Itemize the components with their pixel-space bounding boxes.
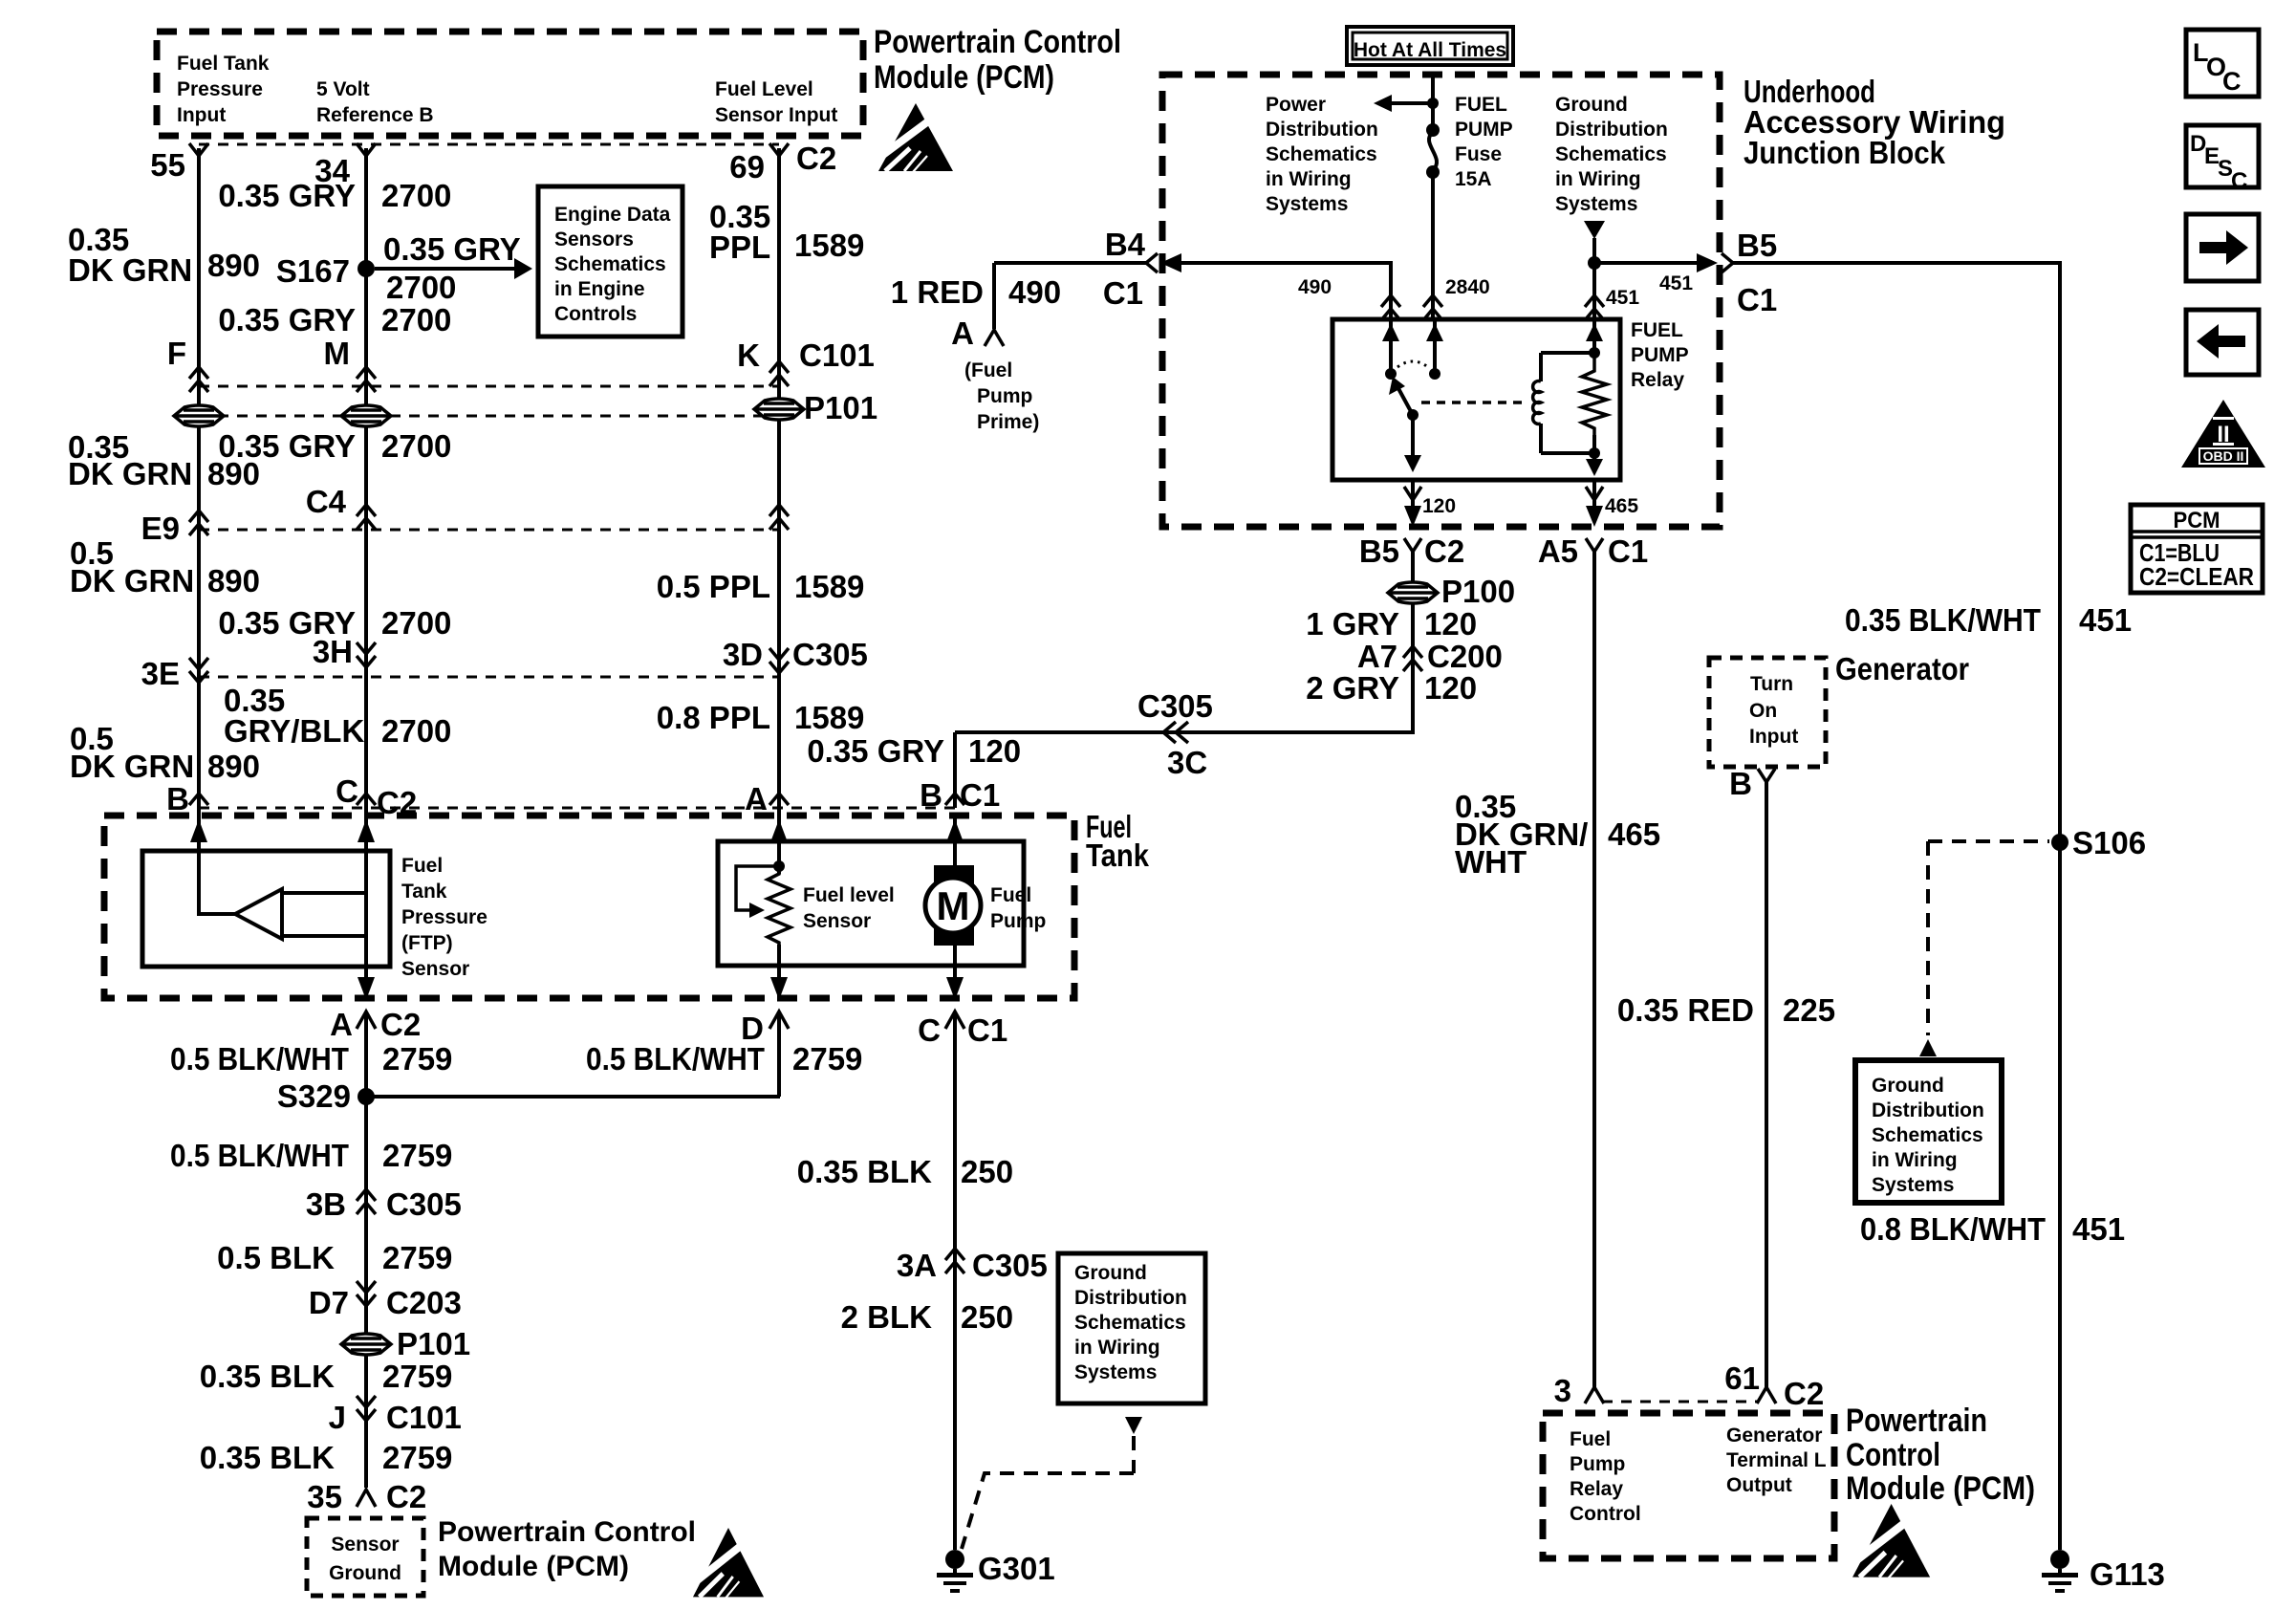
svg-text:in Wiring: in Wiring [1266, 168, 1352, 190]
svg-text:GRY/BLK: GRY/BLK [224, 713, 364, 749]
svg-text:G113: G113 [2090, 1556, 2165, 1592]
svg-text:Control: Control [1846, 1437, 1940, 1473]
svg-text:S106: S106 [2072, 825, 2146, 860]
svg-text:C305: C305 [386, 1186, 462, 1222]
svg-text:B: B [166, 781, 189, 816]
svg-text:0.35 GRY: 0.35 GRY [383, 231, 521, 267]
svg-text:C: C [2231, 168, 2247, 194]
svg-text:2700: 2700 [386, 270, 456, 305]
svg-text:PUMP: PUMP [1455, 119, 1513, 141]
svg-text:E9: E9 [141, 511, 180, 546]
svg-text:2700: 2700 [381, 605, 451, 641]
svg-text:Sensor: Sensor [803, 910, 871, 932]
svg-text:Systems: Systems [1266, 193, 1348, 215]
svg-text:C101: C101 [386, 1400, 462, 1435]
svg-text:Sensor: Sensor [331, 1534, 399, 1556]
svg-text:Fuel Level: Fuel Level [715, 78, 813, 100]
svg-text:Fuel: Fuel [1570, 1428, 1611, 1450]
svg-text:(Fuel: (Fuel [964, 359, 1012, 381]
svg-text:Tank: Tank [401, 881, 447, 903]
svg-text:69: 69 [729, 149, 765, 185]
svg-text:Ground: Ground [329, 1562, 401, 1584]
svg-text:3D: 3D [723, 637, 763, 672]
svg-text:1 RED: 1 RED [891, 274, 984, 310]
svg-text:0.35 GRY: 0.35 GRY [218, 178, 356, 213]
svg-text:Junction Block: Junction Block [1744, 135, 1946, 170]
svg-text:S167: S167 [276, 253, 350, 289]
svg-text:890: 890 [207, 563, 260, 598]
svg-text:3H: 3H [313, 634, 353, 669]
svg-text:3C: 3C [1167, 745, 1207, 780]
svg-text:C: C [336, 773, 358, 809]
svg-text:A: A [951, 315, 974, 351]
svg-text:Input: Input [1749, 726, 1798, 748]
svg-text:P101: P101 [397, 1326, 470, 1361]
svg-text:1589: 1589 [794, 569, 864, 604]
svg-text:Systems: Systems [1074, 1361, 1157, 1383]
svg-text:C305: C305 [1137, 688, 1213, 724]
svg-text:0.35 BLK: 0.35 BLK [200, 1440, 335, 1475]
svg-text:Module (PCM): Module (PCM) [1846, 1470, 2035, 1507]
svg-text:C: C [2222, 67, 2242, 96]
svg-text:Distribution: Distribution [1074, 1287, 1187, 1309]
svg-text:C1: C1 [1608, 533, 1648, 569]
svg-text:Terminal L: Terminal L [1726, 1449, 1827, 1471]
svg-text:Pump: Pump [990, 910, 1046, 932]
svg-text:P100: P100 [1441, 574, 1515, 609]
svg-text:F: F [167, 336, 186, 371]
svg-text:B4: B4 [1105, 227, 1146, 262]
svg-text:A5: A5 [1538, 533, 1578, 569]
svg-text:35: 35 [307, 1479, 342, 1514]
svg-text:490: 490 [1008, 274, 1061, 310]
svg-text:On: On [1749, 700, 1777, 722]
svg-text:Controls: Controls [554, 303, 637, 325]
svg-text:Schematics: Schematics [1266, 143, 1377, 165]
svg-text:Powertrain Control: Powertrain Control [874, 24, 1121, 60]
svg-text:250: 250 [961, 1299, 1013, 1335]
svg-text:Powertrain Control: Powertrain Control [438, 1516, 696, 1548]
svg-text:Pump: Pump [977, 385, 1032, 407]
svg-text:3A: 3A [897, 1248, 937, 1283]
svg-text:3: 3 [1554, 1373, 1571, 1408]
svg-text:Fuel level: Fuel level [803, 884, 895, 906]
svg-text:2759: 2759 [382, 1041, 452, 1077]
svg-text:Schematics: Schematics [1872, 1124, 1983, 1146]
svg-text:P101: P101 [804, 390, 877, 425]
svg-text:C1: C1 [1103, 275, 1143, 311]
svg-text:C2: C2 [386, 1479, 426, 1514]
svg-text:Output: Output [1726, 1474, 1792, 1496]
svg-text:Powertrain: Powertrain [1846, 1403, 1987, 1439]
svg-text:S329: S329 [277, 1078, 351, 1114]
svg-text:DK GRN: DK GRN [70, 563, 194, 598]
svg-text:in Engine: in Engine [554, 278, 645, 300]
svg-text:C305: C305 [792, 637, 868, 672]
svg-text:B5: B5 [1359, 533, 1399, 569]
svg-text:Pressure: Pressure [177, 78, 263, 100]
svg-text:Generator: Generator [1835, 651, 1969, 686]
svg-text:120: 120 [1424, 670, 1477, 706]
svg-text:Turn: Turn [1750, 673, 1793, 695]
svg-text:in Wiring: in Wiring [1074, 1337, 1160, 1359]
svg-text:Hot At All Times: Hot At All Times [1354, 39, 1506, 61]
svg-text:A: A [330, 1007, 353, 1042]
svg-text:Distribution: Distribution [1266, 119, 1378, 141]
svg-text:Pump: Pump [1570, 1453, 1625, 1475]
svg-text:15A: 15A [1455, 168, 1492, 190]
svg-text:C4: C4 [306, 484, 347, 519]
svg-text:Relay: Relay [1631, 369, 1684, 391]
svg-text:2700: 2700 [381, 178, 451, 213]
svg-text:C2: C2 [796, 141, 836, 176]
svg-text:0.5 BLK: 0.5 BLK [217, 1240, 335, 1275]
svg-text:Module (PCM): Module (PCM) [438, 1551, 629, 1582]
svg-text:120: 120 [968, 733, 1021, 769]
svg-text:C2: C2 [380, 1007, 421, 1042]
svg-text:0.35 GRY: 0.35 GRY [807, 733, 944, 769]
svg-text:0.35 BLK: 0.35 BLK [797, 1154, 932, 1189]
svg-text:C203: C203 [386, 1285, 462, 1320]
svg-text:2700: 2700 [381, 713, 451, 749]
svg-text:465: 465 [1608, 816, 1660, 852]
svg-text:0.35 RED: 0.35 RED [1617, 992, 1754, 1028]
svg-text:Distribution: Distribution [1555, 119, 1668, 141]
svg-text:120: 120 [1424, 606, 1477, 642]
svg-text:PUMP: PUMP [1631, 344, 1689, 366]
svg-text:C1: C1 [1737, 282, 1777, 317]
svg-text:Sensor: Sensor [401, 958, 469, 980]
svg-text:DK GRN: DK GRN [68, 252, 192, 288]
svg-text:Module (PCM): Module (PCM) [874, 59, 1054, 96]
svg-text:0.5 BLK/WHT: 0.5 BLK/WHT [586, 1041, 765, 1077]
svg-text:M: M [324, 336, 351, 371]
svg-text:C1: C1 [967, 1012, 1007, 1048]
svg-text:PPL: PPL [709, 229, 770, 265]
svg-text:Relay: Relay [1570, 1478, 1623, 1500]
svg-text:M: M [937, 883, 970, 928]
svg-text:B: B [920, 777, 942, 813]
svg-text:2759: 2759 [382, 1359, 452, 1394]
svg-text:2 GRY: 2 GRY [1306, 670, 1399, 706]
svg-text:Sensors: Sensors [554, 228, 634, 250]
svg-text:0.8 BLK/WHT: 0.8 BLK/WHT [1860, 1211, 2046, 1247]
svg-text:451: 451 [2072, 1211, 2125, 1247]
svg-text:Ground: Ground [1074, 1262, 1147, 1284]
svg-text:Schematics: Schematics [1074, 1312, 1186, 1334]
svg-text:G301: G301 [978, 1551, 1055, 1586]
svg-text:120: 120 [1422, 495, 1456, 517]
svg-text:Fuse: Fuse [1455, 143, 1502, 165]
svg-text:Fuel: Fuel [401, 855, 443, 877]
svg-text:Reference B: Reference B [316, 104, 434, 126]
svg-text:465: 465 [1605, 495, 1638, 517]
svg-text:OBD II: OBD II [2203, 448, 2244, 464]
svg-text:C2: C2 [1424, 533, 1464, 569]
svg-text:WHT: WHT [1455, 844, 1527, 880]
svg-text:2700: 2700 [381, 428, 451, 464]
svg-text:2700: 2700 [381, 302, 451, 337]
svg-text:Sensor Input: Sensor Input [715, 104, 837, 126]
svg-text:C305: C305 [972, 1248, 1048, 1283]
svg-text:Schematics: Schematics [1555, 143, 1667, 165]
svg-text:Input: Input [177, 104, 226, 126]
svg-text:2759: 2759 [382, 1138, 452, 1173]
svg-text:K: K [737, 337, 760, 373]
svg-text:Pressure: Pressure [401, 906, 487, 928]
svg-text:FUEL: FUEL [1631, 319, 1683, 341]
svg-text:890: 890 [207, 749, 260, 784]
svg-text:Tank: Tank [1086, 838, 1150, 873]
svg-text:3E: 3E [141, 656, 180, 691]
svg-text:Engine Data: Engine Data [554, 204, 671, 226]
svg-text:C101: C101 [799, 337, 875, 373]
svg-text:C2=CLEAR: C2=CLEAR [2139, 562, 2254, 591]
svg-text:B: B [1729, 766, 1752, 801]
svg-text:2759: 2759 [382, 1240, 452, 1275]
svg-text:Fuel Tank: Fuel Tank [177, 53, 270, 75]
svg-text:Systems: Systems [1872, 1174, 1954, 1196]
svg-text:C1: C1 [960, 777, 1000, 813]
svg-text:451: 451 [1659, 272, 1693, 294]
svg-text:0.35 GRY: 0.35 GRY [218, 302, 356, 337]
svg-text:DK GRN: DK GRN [68, 456, 192, 491]
svg-text:2759: 2759 [792, 1041, 862, 1077]
svg-text:B5: B5 [1737, 228, 1777, 263]
svg-text:0.35 BLK: 0.35 BLK [200, 1359, 335, 1394]
svg-text:225: 225 [1783, 992, 1835, 1028]
svg-text:A: A [745, 781, 768, 816]
svg-text:D7: D7 [309, 1285, 349, 1320]
svg-text:PCM: PCM [2174, 508, 2220, 533]
svg-text:Schematics: Schematics [554, 253, 666, 275]
svg-text:2759: 2759 [382, 1440, 452, 1475]
svg-text:451: 451 [2079, 602, 2132, 638]
svg-text:1589: 1589 [794, 228, 864, 263]
svg-text:3B: 3B [306, 1186, 346, 1222]
svg-text:1589: 1589 [794, 700, 864, 735]
svg-text:451: 451 [1606, 287, 1639, 309]
svg-text:0.5 BLK/WHT: 0.5 BLK/WHT [170, 1041, 349, 1077]
svg-text:Generator: Generator [1726, 1425, 1822, 1447]
svg-text:890: 890 [207, 456, 260, 491]
svg-text:Distribution: Distribution [1872, 1099, 1984, 1121]
svg-text:FUEL: FUEL [1455, 94, 1507, 116]
svg-text:DK GRN: DK GRN [70, 749, 194, 784]
svg-text:in Wiring: in Wiring [1872, 1149, 1958, 1171]
svg-text:5 Volt: 5 Volt [316, 78, 370, 100]
svg-text:490: 490 [1298, 276, 1332, 298]
svg-text:C2: C2 [1784, 1376, 1824, 1411]
svg-text:A7: A7 [1357, 639, 1397, 674]
svg-text:C200: C200 [1427, 639, 1503, 674]
svg-text:Power: Power [1266, 94, 1326, 116]
svg-text:0.35 BLK/WHT: 0.35 BLK/WHT [1845, 602, 2041, 638]
svg-text:Prime): Prime) [977, 411, 1039, 433]
svg-text:250: 250 [961, 1154, 1013, 1189]
svg-text:0.8 PPL: 0.8 PPL [657, 700, 770, 735]
svg-text:0.5 PPL: 0.5 PPL [657, 569, 770, 604]
svg-text:(FTP): (FTP) [401, 932, 453, 954]
svg-text:in Wiring: in Wiring [1555, 168, 1641, 190]
svg-text:C: C [918, 1012, 941, 1048]
svg-text:Fuel: Fuel [990, 884, 1031, 906]
svg-text:890: 890 [207, 248, 260, 283]
svg-text:Systems: Systems [1555, 193, 1637, 215]
svg-text:1 GRY: 1 GRY [1306, 606, 1399, 642]
svg-text:0.5 BLK/WHT: 0.5 BLK/WHT [170, 1138, 349, 1173]
svg-text:Ground: Ground [1555, 94, 1628, 116]
svg-text:61: 61 [1724, 1360, 1760, 1396]
svg-text:Ground: Ground [1872, 1075, 1944, 1097]
svg-text:J: J [329, 1400, 346, 1435]
svg-text:C2: C2 [377, 785, 417, 820]
svg-text:55: 55 [150, 147, 185, 183]
svg-text:Control: Control [1570, 1503, 1641, 1525]
svg-text:2840: 2840 [1445, 276, 1490, 298]
svg-text:2 BLK: 2 BLK [841, 1299, 933, 1335]
